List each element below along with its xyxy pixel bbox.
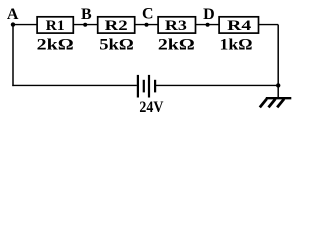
node D <box>206 23 210 27</box>
wire bottom right <box>155 84 278 86</box>
svg-text:C: C <box>142 6 154 23</box>
battery V1 plate long left <box>137 75 139 98</box>
ground stroke 3 <box>277 99 284 108</box>
resistor R3 <box>158 17 195 34</box>
svg-text:24V: 24V <box>139 99 164 116</box>
node B <box>83 23 87 27</box>
wire bottom left <box>12 84 137 86</box>
svg-text:D: D <box>203 6 215 23</box>
wire top rail A-B-C-D <box>13 24 278 26</box>
svg-text:B: B <box>81 6 92 23</box>
svg-text:2kΩ: 2kΩ <box>37 35 74 54</box>
node C <box>145 23 149 27</box>
ground stroke 2 <box>269 99 276 108</box>
resistor R4 <box>219 17 258 34</box>
svg-text:5kΩ: 5kΩ <box>99 35 134 54</box>
svg-text:R4: R4 <box>227 18 252 34</box>
junction node bottom right <box>276 83 280 87</box>
svg-text:A: A <box>7 6 19 23</box>
wire left vertical <box>12 25 14 87</box>
resistor R2 <box>98 17 135 34</box>
svg-text:1kΩ: 1kΩ <box>220 35 253 54</box>
battery V1 plate long right <box>148 75 150 98</box>
ground bar <box>266 97 292 99</box>
svg-text:R3: R3 <box>165 18 187 34</box>
battery V1 plate short right <box>154 80 156 93</box>
svg-text:R2: R2 <box>105 18 128 34</box>
ground stroke 1 <box>260 99 267 108</box>
svg-text:2kΩ: 2kΩ <box>158 35 195 54</box>
battery V1 plate short left <box>143 80 145 93</box>
svg-text:R1: R1 <box>46 18 65 34</box>
wire right vertical <box>277 25 279 98</box>
resistor R1 <box>37 17 73 34</box>
node A <box>11 22 15 26</box>
